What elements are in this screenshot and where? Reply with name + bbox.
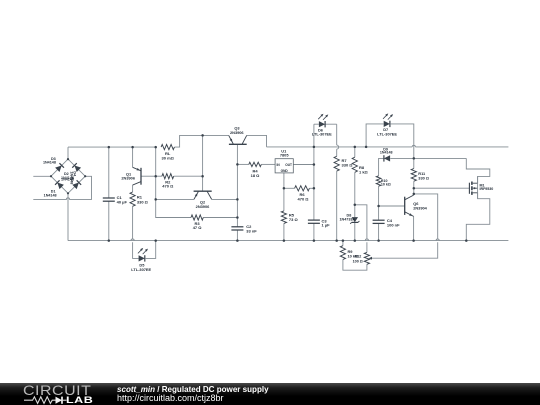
wire mid vertical (Q3 emitter rail to Q2 base) xyxy=(202,135,204,191)
wire R2 right to mid vertical xyxy=(174,175,203,177)
wire C1 bottom stem xyxy=(108,201,110,240)
wire R8 top stem xyxy=(354,147,356,157)
svg-text:1N4148: 1N4148 xyxy=(61,178,74,182)
transistor Q3 2N3906 xyxy=(229,135,247,144)
label C1 xyxy=(117,195,128,204)
resistor R10 xyxy=(376,176,381,186)
wire U1 GND stem xyxy=(283,173,285,211)
wire C2 bottom stem xyxy=(236,230,238,241)
pin IN xyxy=(277,163,281,167)
label R3 xyxy=(193,221,203,230)
resistor R6 xyxy=(295,186,310,191)
node bridge right vertex xyxy=(84,175,86,177)
svg-text:IN: IN xyxy=(277,163,281,167)
svg-text:OUT: OUT xyxy=(285,163,292,167)
label C3 xyxy=(322,218,331,227)
svg-text:73 Ω: 73 Ω xyxy=(289,217,299,222)
hop output rail over D7-R11 vertical xyxy=(412,145,415,147)
wire zener node to potentiometer R12 top (hops ground rail) xyxy=(355,205,367,253)
wire output bus vertical (D6 anode / Q3 C / U1 OUT / R6 / C3) xyxy=(313,124,315,220)
wire R3 right xyxy=(203,217,237,219)
svg-text:2N3906: 2N3906 xyxy=(196,204,210,209)
wire pot R12 wiper to Q6 collector node (hops ground rail) xyxy=(372,194,438,258)
label D2 (overlapping center) xyxy=(61,172,74,182)
wire D5 cathode to ground rail xyxy=(145,241,156,259)
junction dots top rails xyxy=(108,134,204,148)
capacitor C4 xyxy=(373,220,385,223)
footer bar xyxy=(0,383,540,405)
wire bridge bottom vertex down to ground rail xyxy=(67,193,69,240)
svg-text:33 nF: 33 nF xyxy=(246,228,257,233)
wire R2 left xyxy=(156,175,162,177)
transistor M1 IRF9530 PMOS xyxy=(469,176,477,198)
svg-text:1 kΩ: 1 kΩ xyxy=(359,170,369,175)
diode D1 (bridge lower-left) xyxy=(55,180,64,189)
label C2 xyxy=(246,224,257,233)
svg-text:47 Ω: 47 Ω xyxy=(193,225,203,230)
transistor Q2 2N3906 xyxy=(194,191,212,199)
label R1 xyxy=(137,195,149,205)
wire R5 bottom stem xyxy=(283,223,285,240)
resistor R3 xyxy=(191,215,203,220)
label D5 xyxy=(131,263,151,272)
wire R6 left xyxy=(284,187,295,189)
svg-text:10 kΩ: 10 kΩ xyxy=(381,183,391,187)
potentiometer R12 xyxy=(364,252,372,264)
LED D5 LTL-307EE xyxy=(138,248,148,262)
svg-text:30 mΩ: 30 mΩ xyxy=(162,155,175,160)
svg-text:100 nF: 100 nF xyxy=(387,222,400,227)
label R7 xyxy=(342,158,354,168)
svg-text:GND: GND xyxy=(281,169,289,173)
svg-text:R12: R12 xyxy=(355,255,362,259)
diode D4 (bridge lower-right) xyxy=(72,180,81,189)
wire bridge top vertex to V+ unregulated rail xyxy=(67,147,69,159)
label D3 xyxy=(43,157,56,165)
wire R10 bottom to Q6 base node / C4 xyxy=(378,186,380,220)
wire R8 bottom to zener D8 xyxy=(354,172,356,217)
wire R4 right to U1 IN xyxy=(261,163,275,165)
wire R9 top stem xyxy=(342,241,344,246)
wire Q3 base vertical (R4 / Q2 C / R3 / C2) xyxy=(236,144,238,227)
svg-text:470 Ω: 470 Ω xyxy=(298,197,310,202)
label U1 xyxy=(280,149,289,158)
node bridge top vertex xyxy=(67,158,69,160)
label D6 xyxy=(312,128,332,137)
resistor R9 xyxy=(340,246,345,260)
transistor Q6 2N3904 xyxy=(405,195,414,216)
wire D9 cathode to R10 xyxy=(379,158,384,175)
label R9 xyxy=(348,249,359,258)
logo wire-resistor-diode glyph xyxy=(24,397,56,404)
wire node sense vertical (RL left / R2 / Q1 base / Q2 emitter / R3) xyxy=(156,147,191,217)
label Q2 xyxy=(196,200,210,210)
wire Q3 collector to output rail xyxy=(247,135,267,147)
resistor R8 xyxy=(352,157,357,172)
node bridge left vertex xyxy=(50,175,52,177)
resistor R2 xyxy=(162,174,174,179)
pin GND xyxy=(281,169,289,173)
svg-text:1N4148: 1N4148 xyxy=(380,151,393,155)
label M1 xyxy=(480,184,494,192)
svg-text:1N4148: 1N4148 xyxy=(43,161,56,165)
CircuitLab logo xyxy=(23,384,95,405)
diode D2 (bridge upper-right) xyxy=(72,163,81,172)
wire U1 OUT to output bus xyxy=(293,164,314,166)
LED D6 LTL-307EE xyxy=(318,114,328,128)
wire ground rail (bottom) xyxy=(68,240,508,242)
wire unregulated top rail xyxy=(68,146,156,148)
svg-text:1N4733A: 1N4733A xyxy=(340,218,356,222)
label D7 xyxy=(377,127,397,137)
svg-text:40 µF: 40 µF xyxy=(117,199,128,204)
label D4 (rotated, overlapping center) xyxy=(70,171,77,184)
label D8 xyxy=(340,213,356,221)
capacitor C3 xyxy=(308,220,320,223)
label RL xyxy=(162,151,175,160)
junction dots Q3 base vertical xyxy=(236,163,239,219)
resistor R11 xyxy=(411,169,416,182)
svg-text:2N3904: 2N3904 xyxy=(413,206,427,211)
diode bridge diamond wires xyxy=(51,159,85,193)
wire AC input 1 (to bridge left vertex) xyxy=(33,175,51,177)
wire Q1 collector to R1 xyxy=(132,185,134,192)
svg-text:1 µF: 1 µF xyxy=(322,223,331,228)
resistor R1 xyxy=(130,192,135,206)
label D1 xyxy=(44,189,57,197)
wire Q6 emitter to ground rail xyxy=(413,216,415,240)
wire LED D7 cathode row to R11 vertical xyxy=(391,124,414,158)
label R4 xyxy=(251,168,261,177)
wire M1 source route from D9 node xyxy=(466,158,490,183)
label R8 xyxy=(359,165,369,175)
wire R11 to Q6 collector / M1 gate node xyxy=(413,158,415,195)
svg-text:18 Ω: 18 Ω xyxy=(251,173,261,178)
resistor R7 xyxy=(334,156,339,171)
capacitor C2 xyxy=(231,227,243,230)
wire M1 gate xyxy=(414,187,470,189)
hop ground rail over zener-pot wire xyxy=(365,239,368,241)
svg-text:330 Ω: 330 Ω xyxy=(137,200,149,205)
zener D8 1N4733A xyxy=(350,217,359,224)
wire R9 bottom / pot bottom U-link xyxy=(343,260,367,271)
svg-text:2N3906: 2N3906 xyxy=(230,130,244,135)
junction dots right section xyxy=(377,157,415,207)
svg-text:1N4148: 1N4148 xyxy=(44,193,57,197)
junction dots sense net xyxy=(154,175,203,201)
node bridge bottom vertex xyxy=(67,192,69,194)
wire AC input 2 (to bridge right vertex, hops over bridge bottom lead) xyxy=(33,176,91,199)
wire Q1 base xyxy=(141,175,156,177)
diode D3 (bridge upper-left) xyxy=(55,163,64,172)
wire D6 cathode down to R7 (hops output rail) xyxy=(337,124,339,156)
hop ground rail over R1-D5 wire xyxy=(131,239,134,241)
wire R7 bottom to ground rail xyxy=(336,171,338,241)
hop ground rail over wiper wire xyxy=(436,239,439,241)
label R6 xyxy=(298,192,310,201)
label Q6 xyxy=(413,201,427,211)
wire RL right step up to PNP rail xyxy=(174,135,228,147)
wire Q2 emitter to sense net xyxy=(156,198,194,200)
wire R6 right xyxy=(309,187,314,189)
svg-text:2N3906: 2N3906 xyxy=(121,176,135,181)
svg-text:7805: 7805 xyxy=(280,152,289,157)
op-amp U1 7805 regulator box xyxy=(275,159,293,173)
label Q3 xyxy=(230,126,244,135)
svg-text:LTL-307EE: LTL-307EE xyxy=(312,132,332,137)
capacitor C1 xyxy=(103,198,115,201)
wire Q1 emitter stem xyxy=(132,147,134,167)
wire C3 bottom stem xyxy=(313,223,315,240)
label R2 xyxy=(162,179,174,188)
svg-text:330 Ω: 330 Ω xyxy=(418,175,429,180)
label R10 xyxy=(381,179,391,187)
wire D8 bottom to ground rail xyxy=(354,223,356,241)
svg-text:470 Ω: 470 Ω xyxy=(162,184,174,189)
resistor R5 xyxy=(281,211,286,224)
LED D7 LTL-307EE xyxy=(383,113,393,127)
junction dots output bus xyxy=(313,146,368,190)
wire R4 left xyxy=(237,163,248,165)
wire C4 bottom stem xyxy=(378,224,380,241)
svg-text:LTL-307EE: LTL-307EE xyxy=(131,267,151,272)
pin OUT xyxy=(285,163,292,167)
label Q1 xyxy=(121,172,135,181)
resistor RL xyxy=(161,145,174,150)
junction dots ground rail xyxy=(108,239,468,242)
wire D9 anode row / R11 top node xyxy=(390,157,466,159)
label D9 xyxy=(380,147,393,154)
junction dot zener node xyxy=(354,204,357,207)
svg-text:100 Ω: 100 Ω xyxy=(353,259,363,263)
wire LED D6 row xyxy=(314,123,337,125)
wire regulated output rail xyxy=(267,146,509,148)
svg-text:LTL-307EE: LTL-307EE xyxy=(377,132,397,137)
diode D9 1N4148 xyxy=(384,155,390,161)
label C4 xyxy=(387,218,400,227)
junction dot U1 GND node xyxy=(283,187,286,190)
label R5 xyxy=(289,212,299,222)
label R11 xyxy=(418,171,429,181)
label R12 xyxy=(353,255,363,264)
wire Q6 base xyxy=(379,205,405,207)
wire C1 top stem xyxy=(108,147,110,198)
resistor R4 xyxy=(249,162,261,166)
transistor Q1 2N3906 xyxy=(133,167,141,185)
wire D7 branch up from output rail xyxy=(366,124,383,147)
svg-text:IRF9530: IRF9530 xyxy=(480,187,494,191)
wire R1 to LED D5 anode (hops ground rail) xyxy=(133,206,139,258)
svg-text:330 Ω: 330 Ω xyxy=(342,162,354,167)
wire Q2 collector to Q3 base vertical xyxy=(212,198,238,200)
wire M1 drain route to ground rail xyxy=(466,193,490,241)
